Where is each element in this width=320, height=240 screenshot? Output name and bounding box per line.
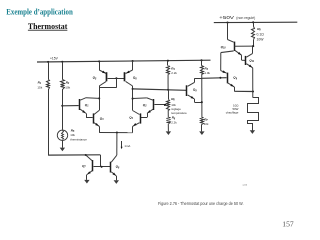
svg-text:chauffage: chauffage (226, 110, 239, 114)
svg-text:0.1Ω: 0.1Ω (257, 32, 265, 36)
svg-text:thermistance: thermistance (70, 137, 87, 141)
svg-text:10k: 10k (204, 122, 209, 126)
svg-text:178: 178 (242, 183, 247, 187)
svg-text:température: température (171, 111, 187, 115)
svg-text:2.2k: 2.2k (171, 121, 177, 125)
svg-text:1mA: 1mA (124, 144, 130, 148)
svg-text:+15V: +15V (50, 56, 59, 60)
svg-text:10k: 10k (70, 133, 75, 137)
svg-text:10W: 10W (257, 38, 265, 42)
svg-text:1.0k: 1.0k (204, 71, 210, 75)
svg-text:157: 157 (282, 220, 294, 229)
svg-text:2.2k: 2.2k (171, 71, 177, 75)
svg-text:15k: 15k (37, 86, 42, 90)
svg-text:+50V: +50V (219, 15, 235, 20)
svg-text:(non regulé): (non regulé) (236, 16, 255, 20)
svg-text:Figure 2.76 - Thermostat pour: Figure 2.76 - Thermostat pour une charge… (158, 201, 244, 206)
svg-text:Thermostat: Thermostat (28, 22, 68, 31)
svg-text:10k: 10k (65, 86, 70, 90)
svg-text:Exemple d’application: Exemple d’application (6, 8, 73, 17)
